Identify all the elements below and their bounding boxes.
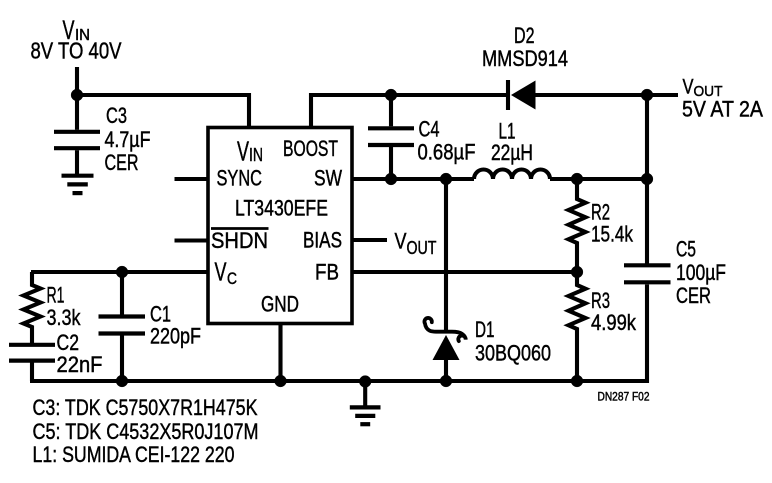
svg-text:5V AT 2A: 5V AT 2A <box>682 97 763 122</box>
wire VC rail <box>31 270 208 274</box>
svg-text:4.99k: 4.99k <box>591 310 637 335</box>
svg-text:BIAS: BIAS <box>303 228 342 253</box>
capacitor C5 <box>624 265 671 282</box>
svg-text:100µF: 100µF <box>676 260 726 285</box>
capacitor C4 <box>368 95 414 179</box>
capacitor C1 <box>99 272 146 381</box>
label C1 value <box>150 302 201 349</box>
wire SW rail right of L1 <box>550 177 647 181</box>
wire SHDN stub <box>175 238 209 242</box>
svg-text:C5: TDK C4532X5R0J107M: C5: TDK C4532X5R0J107M <box>33 419 259 444</box>
svg-text:BOOST: BOOST <box>283 136 338 161</box>
label C5 value <box>676 237 726 309</box>
wire BOOST riser and rail to D2 <box>311 95 508 129</box>
svg-text:V: V <box>395 229 407 254</box>
svg-text:3.3k: 3.3k <box>47 305 82 330</box>
svg-text:D1: D1 <box>475 317 495 342</box>
svg-text:LT3430EFE: LT3430EFE <box>235 196 328 221</box>
wire BIAS stub <box>352 238 387 242</box>
node VOUT label <box>682 75 763 122</box>
svg-text:L1: SUMIDA CEI-122 220: L1: SUMIDA CEI-122 220 <box>33 442 235 467</box>
label R1 value <box>47 283 82 331</box>
capacitor C3 <box>54 95 100 176</box>
pin VIN label <box>237 136 263 167</box>
label C4 value <box>418 117 476 165</box>
svg-text:C5: C5 <box>676 237 696 262</box>
svg-text:OUT: OUT <box>407 237 437 258</box>
resistor R1 <box>24 272 41 343</box>
svg-text:15.4k: 15.4k <box>591 222 634 247</box>
ground symbol bottom <box>350 381 381 424</box>
svg-text:FB: FB <box>315 260 339 285</box>
svg-text:22nF: 22nF <box>57 352 103 377</box>
svg-text:R1: R1 <box>47 283 65 308</box>
pin SHDN overline <box>211 227 269 230</box>
diode D1 schottky <box>424 318 465 360</box>
svg-text:C4: C4 <box>419 117 440 142</box>
svg-text:8V TO 40V: 8V TO 40V <box>31 38 123 64</box>
svg-text:220pF: 220pF <box>150 324 201 349</box>
svg-text:SYNC: SYNC <box>217 166 263 191</box>
ground under C3 <box>62 176 94 193</box>
label R2 value <box>591 200 634 247</box>
wire VIN input lead <box>75 67 79 95</box>
svg-text:22µH: 22µH <box>491 140 533 165</box>
svg-text:SHDN: SHDN <box>211 228 268 253</box>
svg-text:DN287 F02: DN287 F02 <box>598 392 650 404</box>
svg-text:MMSD914: MMSD914 <box>482 46 568 71</box>
wire IC GND lead <box>278 324 282 382</box>
svg-text:V: V <box>237 136 249 167</box>
svg-text:IN: IN <box>249 145 263 165</box>
inductor L1 <box>474 170 550 180</box>
label C2 value <box>57 330 103 377</box>
svg-text:D2: D2 <box>514 23 535 48</box>
op-amp U1 IC box LT3430EFE <box>208 128 352 324</box>
node VIN label <box>31 15 123 64</box>
svg-text:CER: CER <box>105 150 139 175</box>
svg-text:30BQ060: 30BQ060 <box>475 341 551 366</box>
label L1 value <box>491 119 533 166</box>
wire D2 anode rail to VOUT <box>534 93 678 97</box>
wire FB rail <box>352 270 577 274</box>
resistor R2 <box>569 179 586 272</box>
svg-text:GND: GND <box>261 292 299 317</box>
node VOUT at BIAS label <box>395 229 437 259</box>
wire VOUT column down to C5 <box>645 95 649 264</box>
diode D2 <box>508 80 536 110</box>
svg-text:V: V <box>683 75 695 99</box>
svg-text:4.7µF: 4.7µF <box>105 127 151 152</box>
wire top rail VIN to IC <box>77 95 249 129</box>
svg-text:C3: TDK C5750X7R1H475K: C3: TDK C5750X7R1H475K <box>33 395 258 420</box>
capacitor C2 <box>9 345 55 381</box>
pin VC label <box>215 257 238 289</box>
wire SYNC stub <box>175 177 209 181</box>
resistor R3 <box>569 272 586 381</box>
wire D1 cathode lead <box>444 179 448 330</box>
label D2 value <box>482 23 568 71</box>
wire D1 anode lead <box>444 360 448 381</box>
wire SW rail left <box>352 177 474 181</box>
svg-text:V: V <box>215 257 227 287</box>
svg-text:C3: C3 <box>106 103 127 128</box>
wire bottom ground rail <box>30 285 647 382</box>
label D1 value <box>475 317 551 366</box>
svg-text:C: C <box>227 270 237 288</box>
label C3 value <box>105 103 151 175</box>
svg-text:SW: SW <box>314 166 342 191</box>
label R3 value <box>591 288 637 335</box>
svg-text:0.68µF: 0.68µF <box>418 140 476 165</box>
svg-text:CER: CER <box>676 283 711 308</box>
